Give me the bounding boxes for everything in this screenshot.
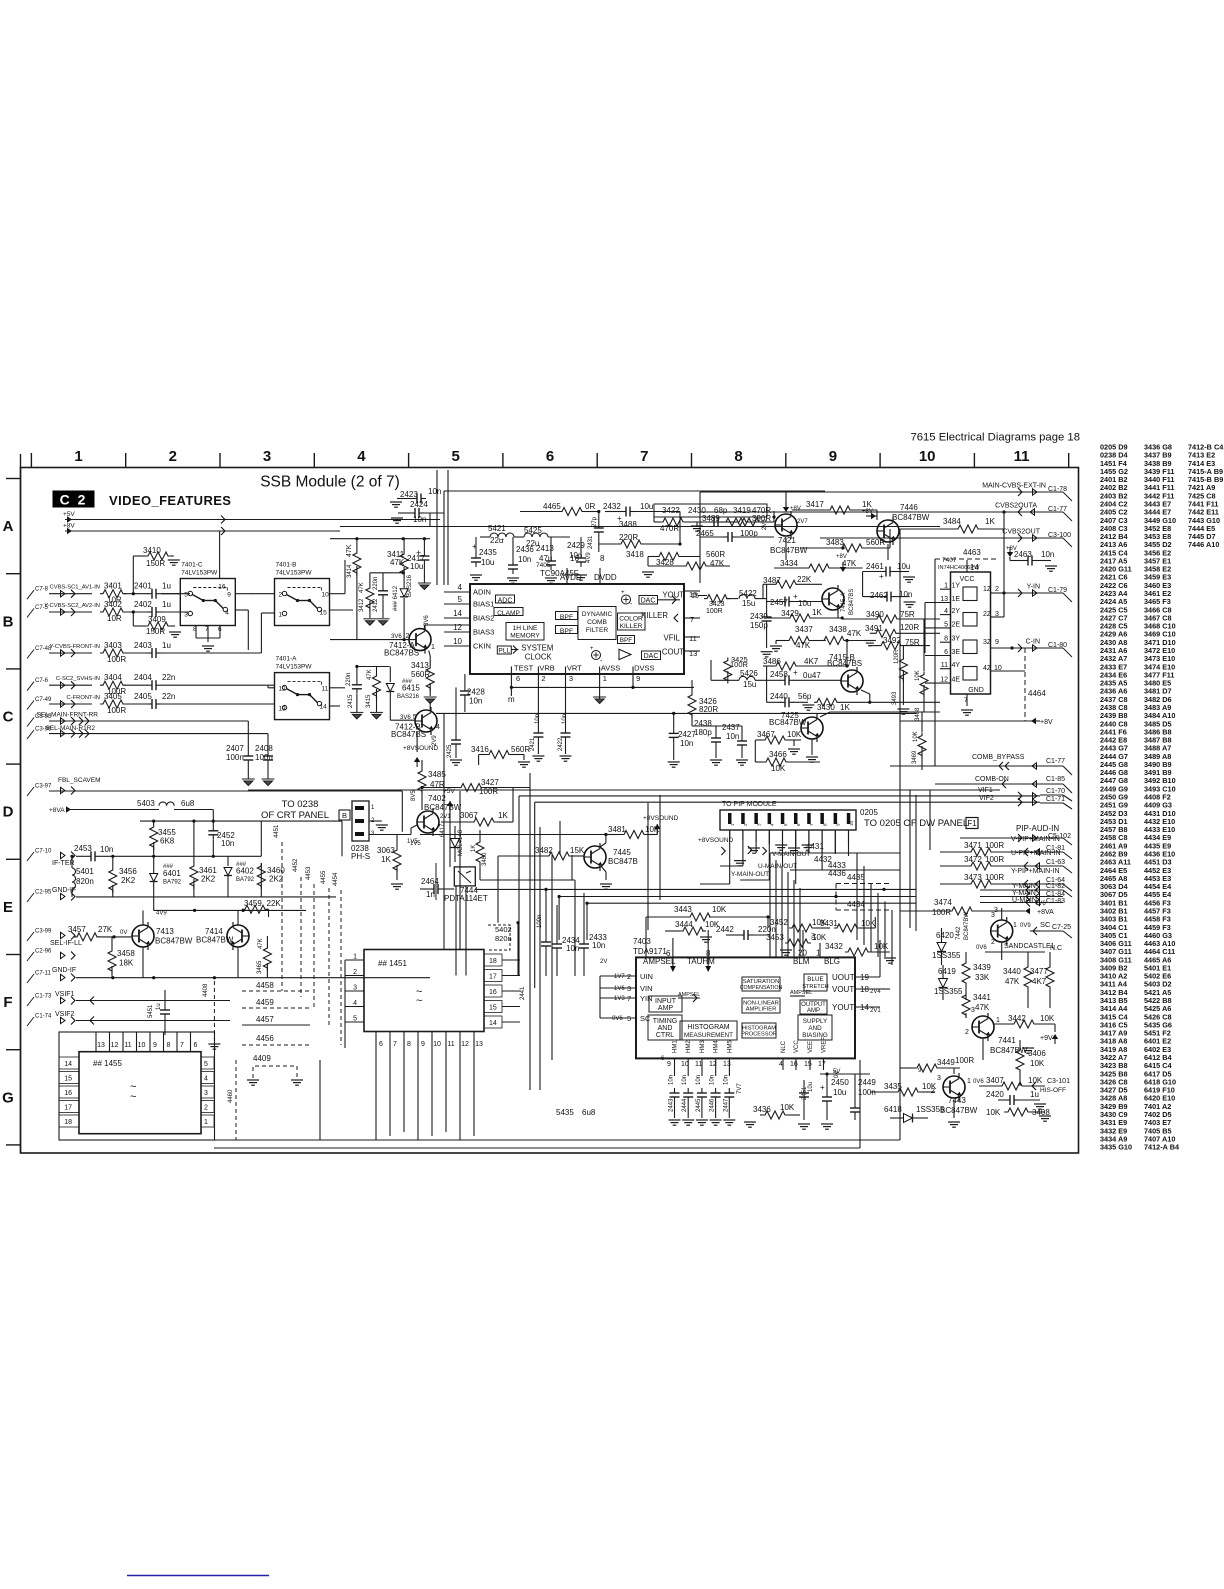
svg-text:3E: 3E <box>952 649 961 656</box>
svg-text:10: 10 <box>453 637 462 646</box>
svg-text:820n: 820n <box>76 877 94 886</box>
svg-text:BAS216: BAS216 <box>397 694 420 700</box>
svg-text:2461: 2461 <box>866 562 884 571</box>
svg-text:3452: 3452 <box>770 918 788 927</box>
svg-text:ADIN: ADIN <box>473 588 491 597</box>
svg-text:10K: 10K <box>874 942 889 951</box>
svg-text:VREF: VREF <box>822 1037 828 1053</box>
svg-text:100R: 100R <box>479 787 498 796</box>
svg-text:2: 2 <box>279 592 283 599</box>
svg-text:100R: 100R <box>985 855 1004 864</box>
svg-text:+8V: +8V <box>1040 719 1053 726</box>
svg-text:1: 1 <box>603 674 607 683</box>
svg-text:BIAS2: BIAS2 <box>473 614 494 623</box>
svg-text:2Z: 2Z <box>983 611 992 618</box>
svg-text:10n: 10n <box>100 845 113 854</box>
svg-text:BA792: BA792 <box>236 877 255 883</box>
svg-text:0V9: 0V9 <box>1020 923 1031 929</box>
svg-text:DYNAMIC: DYNAMIC <box>582 611 613 618</box>
svg-text:13: 13 <box>97 1042 105 1049</box>
svg-text:G: G <box>2 1089 14 1106</box>
svg-text:1u: 1u <box>156 1003 162 1010</box>
svg-text:14: 14 <box>970 563 979 572</box>
svg-text:TAUHM: TAUHM <box>687 957 715 966</box>
svg-text:1n: 1n <box>426 890 435 899</box>
svg-text:HM5: HM5 <box>727 1040 733 1053</box>
svg-text:13: 13 <box>475 1041 483 1048</box>
svg-text:5: 5 <box>204 1061 208 1068</box>
svg-text:3469: 3469 <box>912 750 918 764</box>
svg-text:2V: 2V <box>600 959 607 965</box>
svg-text:1Y: 1Y <box>952 583 961 590</box>
svg-text:6: 6 <box>194 1042 198 1049</box>
svg-text:9: 9 <box>227 592 231 599</box>
svg-text:10K: 10K <box>771 764 786 773</box>
svg-text:E: E <box>3 899 13 916</box>
svg-text:C3-97: C3-97 <box>35 784 52 790</box>
svg-text:10: 10 <box>919 448 936 465</box>
svg-text:GND: GND <box>968 687 984 694</box>
svg-text:8: 8 <box>407 1041 411 1048</box>
svg-text:UOUT: UOUT <box>832 973 855 982</box>
svg-text:7: 7 <box>393 1041 397 1048</box>
svg-text:+: + <box>879 572 884 581</box>
svg-text:TEST: TEST <box>514 664 534 673</box>
svg-text:2K2: 2K2 <box>121 876 136 885</box>
svg-text:2446: 2446 <box>710 1098 716 1112</box>
svg-text:10n: 10n <box>566 944 579 953</box>
svg-text:3438: 3438 <box>829 625 847 634</box>
svg-text:CTRL: CTRL <box>656 1032 674 1039</box>
svg-text:150R: 150R <box>146 559 165 568</box>
svg-text:2449: 2449 <box>858 1078 876 1087</box>
svg-text:3477: 3477 <box>1030 967 1048 976</box>
svg-text:11: 11 <box>322 686 329 693</box>
svg-text:3484: 3484 <box>943 517 961 526</box>
svg-text:AMPSEL: AMPSEL <box>643 957 676 966</box>
svg-text:BPF: BPF <box>560 614 573 621</box>
svg-text:+5V: +5V <box>63 511 75 518</box>
svg-text:1SS355: 1SS355 <box>932 951 961 960</box>
svg-text:2429: 2429 <box>567 541 585 550</box>
svg-text:10K: 10K <box>712 905 727 914</box>
svg-text:2V1: 2V1 <box>440 814 451 820</box>
svg-text:1u: 1u <box>1030 1090 1039 1099</box>
svg-text:5451: 5451 <box>148 1004 154 1018</box>
svg-text:2443: 2443 <box>669 1098 675 1112</box>
svg-text:2E: 2E <box>952 621 961 628</box>
svg-text:2413: 2413 <box>536 544 554 553</box>
svg-text:+8VA: +8VA <box>1037 909 1054 916</box>
svg-text:120R: 120R <box>900 623 919 632</box>
svg-text:MEASUREMENT: MEASUREMENT <box>684 1032 733 1039</box>
svg-text:8V6: 8V6 <box>424 615 430 626</box>
svg-text:3417: 3417 <box>806 500 824 509</box>
svg-text:DVSS: DVSS <box>634 664 654 673</box>
svg-text:10K: 10K <box>915 670 921 681</box>
svg-text:10K: 10K <box>986 1108 1001 1117</box>
svg-text:6419: 6419 <box>938 967 956 976</box>
svg-text:C7-11: C7-11 <box>35 971 52 977</box>
svg-text:COUT: COUT <box>662 648 684 657</box>
svg-text:U-MAIN-OUT: U-MAIN-OUT <box>758 863 797 870</box>
svg-text:AMPSEL: AMPSEL <box>790 990 812 996</box>
svg-text:16: 16 <box>570 554 579 563</box>
svg-text:SUPPLY: SUPPLY <box>803 1018 828 1025</box>
svg-text:0u47: 0u47 <box>803 671 821 680</box>
svg-text:4451: 4451 <box>274 824 280 838</box>
svg-text:7401-C: 7401-C <box>181 562 203 569</box>
svg-text:4E: 4E <box>952 677 961 684</box>
svg-text:2: 2 <box>991 939 995 946</box>
svg-text:CVBS2OUT: CVBS2OUT <box>1002 529 1040 536</box>
svg-text:BC847BW: BC847BW <box>990 1046 1028 1055</box>
svg-text:4409: 4409 <box>253 1054 271 1063</box>
svg-text:BAS216: BAS216 <box>407 574 413 597</box>
svg-text:+: + <box>793 668 798 677</box>
svg-text:DVDD: DVDD <box>594 573 617 582</box>
svg-text:4453: 4453 <box>306 866 312 880</box>
svg-text:2445: 2445 <box>696 1098 702 1112</box>
svg-text:10: 10 <box>849 820 854 826</box>
svg-text:10K: 10K <box>1030 1059 1045 1068</box>
svg-text:100n: 100n <box>226 753 244 762</box>
svg-text:3491: 3491 <box>865 624 883 633</box>
svg-text:PH-S: PH-S <box>351 852 370 861</box>
svg-text:AVSS: AVSS <box>601 664 620 673</box>
svg-text:3413: 3413 <box>411 661 429 670</box>
svg-text:BA792: BA792 <box>163 880 182 886</box>
svg-text:27K: 27K <box>98 925 113 934</box>
svg-text:C1-85: C1-85 <box>1046 776 1065 783</box>
svg-text:22K: 22K <box>267 899 282 908</box>
svg-text:MAIN-CVBS-EXT-IN: MAIN-CVBS-EXT-IN <box>982 483 1046 490</box>
svg-text:13: 13 <box>723 1061 731 1068</box>
svg-text:3488: 3488 <box>619 520 637 529</box>
svg-text:MCL4148: MCL4148 <box>458 829 464 856</box>
svg-text:BC847BW: BC847BW <box>892 513 930 522</box>
svg-text:7: 7 <box>690 615 694 624</box>
svg-text:6402: 6402 <box>236 867 254 876</box>
svg-text:4435: 4435 <box>847 873 865 882</box>
svg-text:C2-95: C2-95 <box>35 890 52 896</box>
svg-text:3: 3 <box>971 1007 975 1014</box>
svg-text:0V: 0V <box>812 933 818 940</box>
svg-text:820R: 820R <box>699 705 718 714</box>
svg-text:AND: AND <box>658 1025 673 1032</box>
svg-text:14: 14 <box>64 1061 72 1068</box>
svg-text:Y-MAIN-OUT: Y-MAIN-OUT <box>731 871 769 878</box>
svg-text:150p: 150p <box>750 621 768 630</box>
svg-text:6401: 6401 <box>163 869 181 878</box>
svg-text:1: 1 <box>967 1078 971 1085</box>
svg-text:AVDD: AVDD <box>560 573 582 582</box>
svg-text:AMPSEL: AMPSEL <box>678 992 700 998</box>
svg-text:C2-96: C2-96 <box>35 949 52 955</box>
svg-text:0V6: 0V6 <box>612 1016 623 1022</box>
svg-text:ADC: ADC <box>498 598 513 605</box>
svg-text:3419: 3419 <box>733 506 751 515</box>
svg-text:TIMING: TIMING <box>653 1018 678 1025</box>
svg-text:560R: 560R <box>866 538 885 547</box>
svg-text:BC847BW: BC847BW <box>770 546 808 555</box>
svg-text:0V6: 0V6 <box>976 945 987 951</box>
svg-text:VIDEO_FEATURES: VIDEO_FEATURES <box>109 493 231 508</box>
svg-text:15: 15 <box>691 593 699 600</box>
svg-text:1: 1 <box>431 644 435 651</box>
svg-text:10n: 10n <box>469 697 482 706</box>
svg-text:3457: 3457 <box>68 925 86 934</box>
svg-text:3468: 3468 <box>915 707 921 721</box>
svg-text:7V7: 7V7 <box>737 1083 743 1094</box>
svg-text:BPF: BPF <box>560 628 573 635</box>
svg-text:+: + <box>590 646 594 652</box>
svg-text:100R: 100R <box>730 660 749 669</box>
svg-text:3407: 3407 <box>986 1076 1004 1085</box>
svg-text:22n: 22n <box>162 673 175 682</box>
svg-text:10K: 10K <box>861 919 876 928</box>
svg-text:2425: 2425 <box>447 744 453 758</box>
svg-text:1: 1 <box>1013 922 1017 929</box>
svg-text:4: 4 <box>436 724 440 731</box>
svg-text:8: 8 <box>600 554 605 563</box>
svg-text:4434: 4434 <box>847 900 865 909</box>
svg-text:Y-CVBS-FRONT-IN: Y-CVBS-FRONT-IN <box>50 644 100 650</box>
svg-text:16: 16 <box>64 1090 72 1097</box>
svg-text:2415: 2415 <box>348 694 354 708</box>
svg-text:820n: 820n <box>495 934 512 943</box>
svg-text:7412-A B4: 7412-A B4 <box>1144 1143 1180 1152</box>
svg-text:+8V: +8V <box>63 523 75 530</box>
svg-text:8: 8 <box>167 1042 171 1049</box>
svg-text:CVBS2OUTA: CVBS2OUTA <box>995 503 1037 510</box>
svg-text:+9V: +9V <box>1040 1035 1053 1042</box>
svg-text:NLC: NLC <box>781 1040 787 1053</box>
svg-text:3466: 3466 <box>769 750 787 759</box>
svg-text:U-PIP+MAIN-IN: U-PIP+MAIN-IN <box>1011 850 1061 857</box>
svg-text:10: 10 <box>322 592 330 599</box>
svg-text:C1-74: C1-74 <box>35 1014 52 1020</box>
svg-text:5: 5 <box>184 592 188 599</box>
svg-text:6: 6 <box>666 949 671 958</box>
svg-text:2422: 2422 <box>558 737 564 751</box>
svg-text:6: 6 <box>379 1041 383 1048</box>
svg-text:~: ~ <box>416 995 422 1007</box>
svg-text:3453: 3453 <box>766 933 784 942</box>
svg-text:2431: 2431 <box>588 535 594 549</box>
svg-text:VFIL: VFIL <box>664 634 681 643</box>
svg-text:7615 Electrical Diagrams page: 7615 Electrical Diagrams page 18 <box>910 432 1080 444</box>
svg-text:C7-10: C7-10 <box>35 849 52 855</box>
svg-text:9: 9 <box>995 639 999 646</box>
svg-text:1K: 1K <box>471 845 477 852</box>
svg-text:BC847BW: BC847BW <box>196 936 234 945</box>
svg-text:C1-71: C1-71 <box>1046 796 1065 803</box>
svg-text:3430: 3430 <box>817 703 835 712</box>
svg-text:2408: 2408 <box>255 744 273 753</box>
svg-text:7407: 7407 <box>942 557 957 564</box>
svg-text:1V5: 1V5 <box>407 839 418 845</box>
svg-text:1u: 1u <box>162 582 171 591</box>
svg-text:HM3: HM3 <box>700 1040 706 1053</box>
svg-text:15K: 15K <box>570 846 585 855</box>
svg-text:27p: 27p <box>592 516 598 527</box>
svg-text:VOUT: VOUT <box>832 985 854 994</box>
svg-text:SEL-MAIN-FRNT-RR: SEL-MAIN-FRNT-RR <box>37 712 99 719</box>
svg-text:N.C: N.C <box>1050 945 1062 952</box>
svg-text:BLG: BLG <box>824 957 840 966</box>
svg-text:9: 9 <box>153 1042 157 1049</box>
svg-text:2407: 2407 <box>226 744 244 753</box>
svg-text:6415: 6415 <box>402 684 420 693</box>
svg-text:74LV153PW: 74LV153PW <box>181 570 218 577</box>
svg-text:OF CRT PANEL: OF CRT PANEL <box>261 810 329 821</box>
svg-text:VIN: VIN <box>640 984 653 993</box>
svg-text:3441: 3441 <box>973 993 991 1002</box>
svg-text:2442: 2442 <box>716 925 734 934</box>
svg-text:3456: 3456 <box>119 867 137 876</box>
svg-text:47K: 47K <box>1005 977 1020 986</box>
svg-text:3434: 3434 <box>780 559 798 568</box>
svg-text:47K: 47K <box>796 641 811 650</box>
svg-text:3443: 3443 <box>674 905 692 914</box>
svg-text:CKIN: CKIN <box>473 642 491 651</box>
svg-text:2404: 2404 <box>134 673 152 682</box>
svg-text:16: 16 <box>790 1061 798 1068</box>
svg-text:1K: 1K <box>381 855 391 864</box>
svg-text:3Z: 3Z <box>983 639 992 646</box>
svg-text:2: 2 <box>965 1029 969 1036</box>
svg-text:## 1451: ## 1451 <box>378 959 407 968</box>
svg-text:3483: 3483 <box>826 538 844 547</box>
svg-text:8: 8 <box>734 448 742 465</box>
svg-text:10n: 10n <box>518 555 531 564</box>
svg-text:10n: 10n <box>682 1075 688 1085</box>
svg-text:TO PIP MODULE: TO PIP MODULE <box>722 801 777 808</box>
svg-text:3436: 3436 <box>753 1105 771 1114</box>
svg-text:10n: 10n <box>428 487 441 496</box>
svg-text:VRT: VRT <box>567 664 582 673</box>
svg-text:BC847BS: BC847BS <box>384 649 419 658</box>
svg-text:3449: 3449 <box>937 1058 955 1067</box>
svg-text:8V5: 8V5 <box>411 790 417 801</box>
svg-text:4464: 4464 <box>1028 689 1046 698</box>
svg-text:4K7: 4K7 <box>804 657 819 666</box>
svg-text:GND-IF: GND-IF <box>52 967 76 974</box>
svg-text:FILTER: FILTER <box>586 627 608 634</box>
svg-text:Y-PIP+MAIN-IN: Y-PIP+MAIN-IN <box>1011 868 1060 875</box>
svg-text:2462: 2462 <box>870 591 888 600</box>
svg-text:7401-A: 7401-A <box>276 656 298 663</box>
svg-text:2V4: 2V4 <box>870 989 881 995</box>
svg-text:10n: 10n <box>669 1075 675 1085</box>
svg-text:+: + <box>621 590 625 596</box>
svg-text:33K: 33K <box>975 973 990 982</box>
svg-text:3418: 3418 <box>626 550 644 559</box>
svg-text:2403: 2403 <box>134 641 152 650</box>
svg-text:12: 12 <box>709 1061 717 1068</box>
svg-text:VCC: VCC <box>794 1040 800 1053</box>
svg-text:3474: 3474 <box>934 898 952 907</box>
svg-text:2: 2 <box>204 1105 208 1112</box>
svg-text:3437: 3437 <box>795 625 813 634</box>
svg-text:1V3: 1V3 <box>614 996 625 1002</box>
svg-text:VSIF1: VSIF1 <box>55 991 75 998</box>
svg-text:C7-25: C7-25 <box>1052 924 1071 931</box>
svg-text:11: 11 <box>124 1042 131 1049</box>
svg-text:m: m <box>508 695 515 704</box>
svg-text:18: 18 <box>64 1119 72 1126</box>
svg-text:7405: 7405 <box>536 562 551 569</box>
svg-text:### 6412: ### 6412 <box>393 585 399 611</box>
svg-text:0R: 0R <box>585 502 595 511</box>
svg-text:3432: 3432 <box>825 942 843 951</box>
svg-text:C1-77: C1-77 <box>1046 758 1065 765</box>
svg-text:3458: 3458 <box>117 949 135 958</box>
svg-text:+8V: +8V <box>790 506 801 512</box>
svg-text:9: 9 <box>421 1041 425 1048</box>
svg-text:2450: 2450 <box>831 1078 849 1087</box>
svg-text:4Y: 4Y <box>952 662 961 669</box>
svg-text:1: 1 <box>204 1119 208 1126</box>
svg-text:BC847BW: BC847BW <box>155 937 193 946</box>
svg-text:B: B <box>3 613 14 630</box>
svg-text:2444: 2444 <box>682 1098 688 1112</box>
svg-text:16: 16 <box>218 584 226 591</box>
svg-text:10u: 10u <box>808 1082 814 1092</box>
svg-text:4455: 4455 <box>321 870 327 884</box>
svg-text:BIAS3: BIAS3 <box>473 628 494 637</box>
svg-text:10n: 10n <box>1041 550 1054 559</box>
svg-text:5401: 5401 <box>76 867 94 876</box>
svg-text:V-MAIN-OUT: V-MAIN-OUT <box>772 851 810 858</box>
svg-text:2438: 2438 <box>694 719 712 728</box>
svg-text:~: ~ <box>500 537 504 544</box>
svg-text:2453: 2453 <box>74 844 92 853</box>
svg-text:AMPLIFIER: AMPLIFIER <box>746 1007 777 1013</box>
svg-text:2: 2 <box>995 586 999 593</box>
svg-text:10n: 10n <box>899 590 912 599</box>
svg-text:220n: 220n <box>346 673 352 686</box>
svg-text:3: 3 <box>204 1090 208 1097</box>
svg-text:2424: 2424 <box>410 500 428 509</box>
svg-text:3412: 3412 <box>359 598 365 612</box>
svg-text:15: 15 <box>804 1061 812 1068</box>
svg-text:7445: 7445 <box>613 848 631 857</box>
svg-text:1: 1 <box>279 612 283 619</box>
svg-text:3Y: 3Y <box>952 636 961 643</box>
svg-text:C-SC2_SVHS-IN: C-SC2_SVHS-IN <box>56 676 100 682</box>
svg-text:C7-8: C7-8 <box>35 587 49 593</box>
svg-text:2402: 2402 <box>134 600 152 609</box>
svg-text:DAC: DAC <box>644 653 659 660</box>
svg-text:15: 15 <box>64 1076 72 1083</box>
svg-text:7421: 7421 <box>778 536 796 545</box>
svg-text:3416: 3416 <box>471 745 489 754</box>
svg-text:Y-CVBS-SC2_AV2-IN: Y-CVBS-SC2_AV2-IN <box>44 603 100 609</box>
svg-text:10n: 10n <box>696 1075 702 1085</box>
svg-text:17: 17 <box>64 1105 72 1112</box>
svg-text:3439: 3439 <box>973 963 991 972</box>
svg-text:100R: 100R <box>985 873 1004 882</box>
svg-text:TO 0238: TO 0238 <box>282 799 319 810</box>
svg-text:1u: 1u <box>162 641 171 650</box>
svg-text:0V6: 0V6 <box>973 1079 984 1085</box>
svg-text:4: 4 <box>225 610 229 617</box>
svg-text:HM2: HM2 <box>686 1040 692 1053</box>
svg-text:TDA9171: TDA9171 <box>633 947 667 956</box>
svg-text:10K: 10K <box>1028 1076 1043 1085</box>
